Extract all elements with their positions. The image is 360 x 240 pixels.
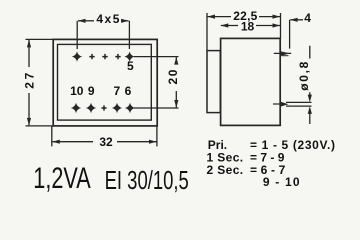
svg-text:7: 7 bbox=[113, 84, 120, 98]
side view lamination stack rectangle bbox=[207, 51, 220, 113]
unused position cross top 3 bbox=[102, 54, 107, 59]
pin 6 (bottom row star) bbox=[125, 103, 135, 113]
transformer top view outer body bbox=[53, 39, 157, 126]
dimension 4x5 line right segment with arrow bbox=[121, 19, 129, 23]
core type label EI 30/10,5 bbox=[105, 166, 189, 195]
pin diameter extension line top bbox=[286, 101, 312, 103]
dimension 4x5 extension line right bbox=[128, 21, 130, 49]
pin assignment text block bbox=[207, 138, 336, 189]
svg-text:9 - 10: 9 - 10 bbox=[263, 175, 300, 189]
dimension diameter 0,8 upper line with arrow bbox=[308, 46, 312, 102]
svg-text:4: 4 bbox=[304, 11, 311, 25]
dimension 32 extension line right bbox=[156, 127, 158, 147]
pin 10 (bottom row star) bbox=[71, 103, 81, 113]
pin 1 (top row star) bbox=[72, 51, 82, 61]
unused position cross top 2 bbox=[89, 54, 94, 59]
power rating label 1,2VA bbox=[33, 163, 91, 195]
svg-text:1,2VA: 1,2VA bbox=[33, 163, 91, 195]
dimension 22,5 left extension line bbox=[206, 13, 208, 51]
unused position cross bottom 8 bbox=[101, 105, 106, 110]
svg-text:2 Sec.: 2 Sec. bbox=[207, 163, 244, 177]
dimension 32 line with arrows bbox=[52, 140, 156, 144]
svg-text:6: 6 bbox=[125, 84, 132, 98]
dimension 22,5/18 right extension line bbox=[280, 13, 282, 38]
pin 7 (bottom row star) bbox=[112, 103, 122, 113]
bottom pin of side view bbox=[273, 102, 289, 107]
top pin of side view bbox=[274, 51, 291, 55]
svg-text:18: 18 bbox=[241, 19, 255, 33]
dimension diameter 0,8 lower line with arrow bbox=[308, 106, 312, 124]
svg-text:27: 27 bbox=[22, 72, 36, 88]
svg-text:ø0,8: ø0,8 bbox=[297, 61, 311, 90]
svg-text:32: 32 bbox=[99, 135, 113, 149]
svg-text:4x5: 4x5 bbox=[96, 12, 119, 26]
unused position cross top 4 bbox=[115, 54, 120, 59]
pin diameter extension line bottom bbox=[286, 105, 312, 107]
dimension 22,5 line with arrows bbox=[207, 15, 280, 19]
dimension 4 vertical extension line bbox=[289, 20, 291, 49]
dimension 20 vertical line with arrows bbox=[174, 57, 178, 108]
dimension 27 bottom leader bbox=[26, 125, 54, 127]
svg-text:10: 10 bbox=[70, 84, 84, 98]
dimension 32 extension line left bbox=[51, 127, 53, 147]
svg-text:EI 30/10,5: EI 30/10,5 bbox=[105, 166, 189, 195]
side view body rectangle bbox=[221, 38, 281, 125]
dimension 27 vertical line with arrows bbox=[27, 40, 31, 126]
dimension 4x5 line left segment with arrow bbox=[78, 19, 94, 23]
dimension 27 top leader bbox=[26, 38, 54, 40]
dimension 20 top leader from pin 5 bbox=[134, 56, 179, 58]
dimension 18 line with arrows bbox=[221, 23, 280, 27]
dimension 4 horizontal line with arrow bbox=[290, 18, 303, 22]
transformer top view inner body bbox=[58, 44, 152, 120]
dimension 4x5 extension line left bbox=[76, 21, 78, 49]
pin 9 (bottom row star) bbox=[86, 103, 96, 113]
pin 5 (top row star) bbox=[124, 51, 134, 61]
svg-text:20: 20 bbox=[166, 69, 180, 84]
svg-text:9: 9 bbox=[88, 84, 95, 98]
dimension 20 bottom leader from pin 6 bbox=[134, 107, 179, 109]
svg-text:5: 5 bbox=[127, 59, 134, 73]
